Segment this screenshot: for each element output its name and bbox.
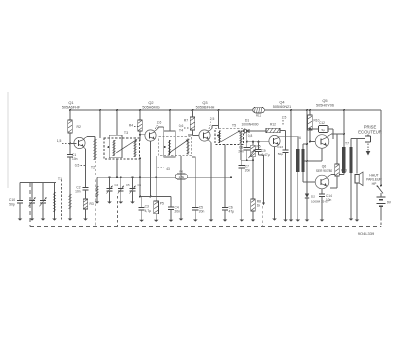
svg-text:10n: 10n	[326, 198, 332, 202]
wire battery to ground rail	[380, 218, 382, 227]
wire T3 bottom leg	[116, 159, 118, 177]
svg-text:Q4: Q4	[279, 100, 285, 105]
node T3 core dot	[108, 146, 110, 148]
capacitor C1	[69, 144, 71, 155]
transistor Q1	[74, 137, 85, 148]
svg-text:505A6FHF: 505A6FHF	[62, 105, 81, 109]
wire Q4 emitter	[274, 147, 276, 219]
wire emitter R5 C4 branch	[140, 196, 171, 198]
svg-text:2,5: 2,5	[282, 116, 287, 120]
gang link dashed 1	[95, 180, 97, 227]
wire detector drop	[246, 131, 248, 142]
transformer T4 inner can	[164, 131, 176, 157]
transformer T3 primary	[113, 140, 115, 156]
svg-text:T6: T6	[297, 136, 301, 140]
svg-text:50p: 50p	[9, 203, 15, 207]
jack J1	[365, 134, 371, 142]
transformer T5 shield box	[215, 129, 244, 145]
coil T2 winding	[94, 137, 96, 140]
svg-text:R11: R11	[256, 114, 262, 118]
gang link dashed 2	[117, 196, 119, 227]
svg-text:4,7μ: 4,7μ	[145, 209, 152, 213]
wire Q1 collector to T2	[84, 137, 88, 140]
svg-text:C12: C12	[319, 121, 325, 125]
wire T5 secondary bottom	[240, 144, 242, 161]
svg-text:0,8: 0,8	[248, 134, 253, 138]
svg-text:20n: 20n	[175, 210, 181, 214]
resistor R4	[139, 110, 141, 120]
svg-text:R12: R12	[270, 123, 276, 127]
svg-text:1k: 1k	[257, 203, 261, 207]
svg-text:C4: C4	[115, 183, 119, 187]
diode D2	[305, 194, 309, 198]
wire Q2 collector	[155, 129, 159, 132]
svg-text:T2: T2	[91, 166, 95, 170]
svg-text:505H6MG: 505H6MG	[142, 105, 159, 109]
capacitor C6	[222, 207, 228, 209]
transformer T4 secondary	[187, 139, 189, 155]
coil T2 tap winding	[69, 194, 71, 209]
node T4 core dot	[163, 146, 165, 148]
wire AGC bus	[97, 176, 175, 178]
wire detector base line	[247, 141, 269, 143]
capacitor C3	[141, 197, 143, 208]
resistor R10	[309, 110, 311, 115]
svg-text:C10: C10	[9, 198, 15, 202]
wire T3 sec bottom	[139, 159, 141, 197]
trimmer CT1	[109, 177, 111, 188]
transformer T6 core left	[296, 149, 299, 172]
gang link dashed pot	[261, 206, 263, 227]
wire Q2 emitter	[150, 141, 152, 196]
svg-text:9V: 9V	[387, 201, 392, 205]
svg-text:P5: P5	[160, 201, 164, 205]
variable capacitor CV1	[31, 183, 33, 201]
loudspeaker HP	[355, 175, 359, 184]
transistor Q2	[145, 130, 156, 141]
wire right rail down	[380, 110, 382, 186]
svg-text:T3: T3	[124, 131, 128, 135]
transformer T3 secondary	[134, 141, 136, 157]
svg-text:R2: R2	[77, 125, 81, 129]
svg-text:10n: 10n	[75, 189, 81, 193]
transformer T5 secondary	[240, 131, 242, 144]
transformer T3 shield box	[104, 138, 140, 159]
battery B1	[377, 196, 386, 198]
wire T6 primary bottom	[297, 172, 299, 220]
wire bias line	[290, 110, 292, 220]
svg-text:20n: 20n	[245, 168, 251, 172]
transistor Q5	[315, 135, 329, 149]
wire V+ top rail	[70, 109, 381, 111]
coil T1 winding	[54, 183, 56, 193]
capacitor C7	[241, 160, 243, 165]
jack plug arrow	[367, 144, 369, 152]
svg-text:T5: T5	[232, 124, 236, 128]
wire Q4 collector	[279, 136, 298, 138]
svg-text:Q5: Q5	[322, 98, 327, 103]
wire T6 secondary top	[302, 144, 304, 149]
wire tuning top	[20, 182, 56, 184]
wire chassis rail	[30, 226, 381, 228]
svg-text:505/60N21: 505/60N21	[273, 105, 292, 109]
wire T7 secondary bottom	[350, 173, 352, 219]
capacitor C9	[258, 142, 260, 149]
wire T6 secondary bottom	[302, 172, 304, 182]
svg-text:1000N4000: 1000N4000	[241, 123, 258, 127]
resistor R2	[69, 110, 71, 120]
wire Q1 emitter	[83, 147, 85, 149]
svg-text:R6: R6	[179, 170, 183, 174]
variable capacitor CV2	[42, 183, 44, 201]
svg-text:10n: 10n	[72, 157, 78, 161]
node rail junction	[169, 109, 171, 111]
node bus junction	[132, 176, 134, 178]
node bus junction	[120, 176, 122, 178]
capacitor C13	[280, 130, 286, 132]
wire T4 bottom leg	[180, 156, 182, 219]
wire rail to T3	[99, 110, 101, 138]
svg-text:T7: T7	[345, 142, 349, 146]
node rail junction	[69, 109, 71, 111]
svg-text:2,5: 2,5	[210, 117, 215, 121]
wire C12 right	[328, 128, 333, 130]
wire Q3 emitter	[208, 139, 212, 142]
svg-text:R4: R4	[129, 124, 133, 128]
ferrite rod T1	[61, 180, 63, 222]
node rail junction	[218, 109, 220, 111]
transformer T3 inner can	[109, 135, 122, 157]
wire Q6 collector	[327, 175, 331, 178]
wire T4 sec to base	[188, 134, 193, 136]
transformer T4 shield box	[159, 137, 192, 156]
svg-text:C13: C13	[277, 145, 283, 149]
wire C12 left	[310, 128, 319, 130]
switch S1	[380, 185, 382, 187]
svg-text:ECOUTEUR: ECOUTEUR	[358, 130, 382, 135]
transistor Q4	[269, 135, 280, 146]
resistor R13	[336, 134, 338, 164]
svg-text:5μ: 5μ	[321, 128, 325, 132]
wire Q1 base	[70, 143, 77, 145]
transistor Q3	[199, 130, 210, 141]
resistor R5	[155, 156, 157, 201]
wire detector lower rail	[241, 159, 253, 161]
svg-text:47μ: 47μ	[229, 210, 235, 214]
svg-text:0,6: 0,6	[179, 124, 184, 128]
transformer T3 tuning arrow	[116, 140, 136, 153]
transformer T4 primary	[169, 140, 171, 155]
node rail junction	[343, 109, 345, 111]
wire jack to speaker	[356, 139, 358, 174]
capacitor C5	[192, 156, 196, 158]
svg-text:SER 90780: SER 90780	[316, 169, 333, 173]
node T5 core dot	[217, 134, 219, 136]
node rail junction	[306, 109, 308, 111]
resistor R12	[266, 128, 280, 133]
transformer T6 core right	[301, 149, 304, 172]
svg-text:C5: C5	[126, 183, 130, 187]
capacitor C8	[246, 142, 248, 147]
svg-text:20n: 20n	[199, 210, 205, 214]
capacitor C12	[319, 126, 329, 133]
wire rail to T3 can	[116, 110, 118, 135]
svg-text:9O4L339: 9O4L339	[358, 231, 375, 236]
node rail junction	[139, 109, 141, 111]
transformer T5 primary	[219, 131, 221, 144]
transformer T4 tuning arrow	[169, 140, 188, 153]
wire Q3 collector	[209, 129, 213, 132]
svg-text:C6: C6	[138, 183, 142, 187]
wire switch to battery	[380, 193, 382, 196]
resistor R7	[192, 110, 194, 117]
svg-text:0,47μ: 0,47μ	[262, 153, 270, 157]
svg-text:Q6: Q6	[322, 165, 327, 169]
svg-text:1,5: 1,5	[57, 139, 62, 143]
node Q1 base	[69, 143, 71, 145]
diode D1	[245, 129, 250, 133]
wire T5 sec top	[241, 130, 244, 132]
svg-text:R7: R7	[184, 119, 188, 123]
wire rail to T5	[218, 110, 220, 129]
capacitor C10	[19, 183, 21, 201]
svg-text:2,6: 2,6	[157, 121, 162, 125]
svg-text:43: 43	[166, 167, 170, 171]
svg-text:0,5: 0,5	[75, 164, 80, 168]
resistor R11	[253, 107, 264, 113]
transformer T5 tuning arrow	[221, 131, 240, 142]
svg-text:R3: R3	[90, 202, 94, 206]
svg-text:5059BFHH: 5059BFHH	[196, 105, 215, 109]
resistor R6	[175, 174, 187, 179]
wire speaker ground	[356, 184, 358, 220]
wire diode line	[306, 110, 308, 194]
wire Q2 base	[140, 134, 145, 136]
potentiometer P5	[252, 142, 254, 146]
wire T7 secondary top	[350, 139, 352, 148]
transformer T7 core right	[349, 147, 352, 173]
capacitor C2	[82, 187, 88, 189]
wire Q5 collector	[327, 134, 331, 137]
svg-text:Q2: Q2	[148, 100, 153, 105]
capacitor C4	[170, 197, 172, 207]
resistor R8	[252, 160, 254, 199]
svg-text:1,8k: 1,8k	[178, 175, 184, 179]
wire D1 to R12	[249, 130, 266, 132]
svg-text:Q1: Q1	[68, 100, 73, 105]
svg-text:C3: C3	[145, 205, 149, 209]
wire Q6 emitter	[321, 189, 323, 194]
resistor R3	[83, 199, 88, 209]
node bus junction	[139, 176, 141, 178]
node bus junction	[109, 176, 111, 178]
node bus junction	[155, 176, 157, 178]
transistor Q6	[315, 175, 329, 189]
wire T5 bottom leg	[224, 144, 226, 207]
wire gang riser	[96, 186, 98, 197]
capacitor C14	[319, 193, 325, 195]
wire rail to T4	[169, 110, 171, 131]
resistor R8 body	[251, 199, 256, 211]
svg-text:Q3: Q3	[202, 100, 207, 105]
trimmer CT2	[120, 177, 122, 188]
node rail junction	[290, 109, 292, 111]
transformer T7 core left	[342, 147, 345, 173]
wire Q5 emitter chain	[321, 148, 323, 161]
svg-text:T4: T4	[179, 129, 183, 133]
svg-text:505H0Y06: 505H0Y06	[316, 104, 334, 108]
trimmer CT3	[132, 177, 134, 188]
node rail junction	[309, 109, 311, 111]
wire rail to T7	[343, 110, 345, 134]
svg-text:HP: HP	[372, 182, 377, 186]
svg-text:50μ: 50μ	[278, 152, 283, 156]
node rail junction	[192, 109, 194, 111]
svg-text:D2: D2	[311, 195, 315, 199]
node rail junction	[99, 109, 101, 111]
wire chassis left riser	[29, 183, 31, 227]
